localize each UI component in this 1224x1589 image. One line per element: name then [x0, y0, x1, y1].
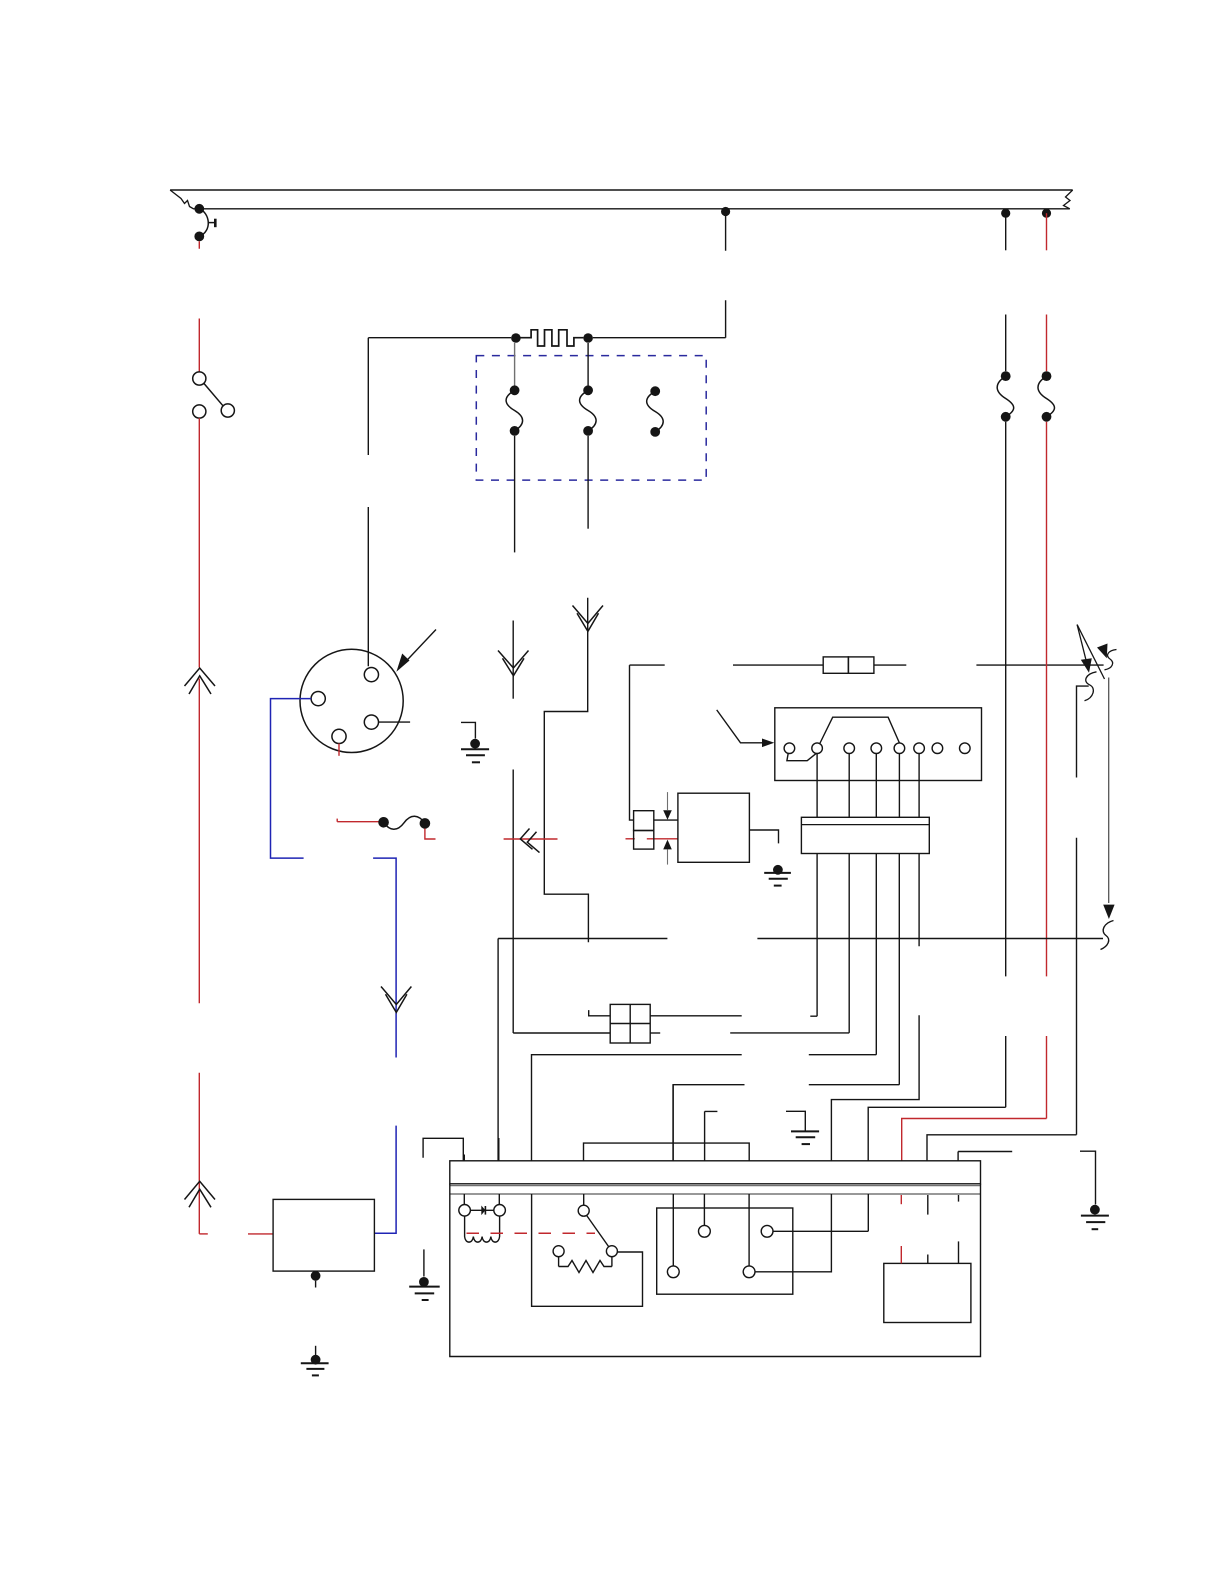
wire BR to accessory vertical — [755, 1194, 831, 1272]
node dot resistor left — [511, 333, 521, 343]
wire red feed continues down — [1046, 422, 1048, 1119]
ground G4 solenoid — [409, 1277, 440, 1300]
wire dash black into module A — [928, 1195, 959, 1263]
distributor pin left — [311, 692, 325, 706]
distributor pin right — [364, 715, 378, 729]
arrowhead 2 — [1097, 644, 1108, 659]
wire relay right top — [650, 1015, 742, 1017]
bus left corner down to engine harness — [497, 939, 499, 1161]
diode terminal circles — [459, 1205, 471, 1217]
wire harness bottom line — [199, 208, 1070, 210]
terminal circle BL — [667, 1266, 679, 1278]
diode symbol — [481, 1206, 485, 1216]
wire fuse1 branch resume with chevrons to horn relay — [513, 621, 610, 1034]
node dot resistor right — [583, 333, 593, 343]
arrowhead off-page down — [1103, 905, 1114, 919]
ballast resistor square wave — [521, 330, 584, 346]
wire: resistor block to flasher — [654, 819, 678, 821]
wire J5 — [831, 854, 919, 1161]
wire TR to starter vertical — [773, 1230, 868, 1232]
leader line 1 — [1077, 625, 1086, 660]
flasher box — [678, 793, 750, 862]
wire: flasher to ground — [749, 830, 778, 843]
points sub-box outline — [532, 1194, 643, 1306]
points pivot circle — [578, 1205, 589, 1216]
distributor pin top — [364, 668, 378, 682]
wire J2 — [730, 854, 849, 1033]
points resistor zigzag — [559, 1261, 612, 1273]
wire: harness down to solenoid from horn button — [423, 1138, 463, 1161]
switch blade — [204, 384, 223, 406]
break squiggle bottom — [1101, 921, 1114, 950]
wire black accessory feed — [1005, 213, 1007, 371]
points arm — [587, 1215, 609, 1247]
resistor block two cells — [634, 811, 654, 849]
wire long off-page vertical — [1108, 678, 1110, 904]
wire red dashes into module — [900, 1195, 902, 1263]
bracket above bar — [584, 1143, 750, 1161]
circuit breaker arc — [199, 209, 215, 237]
connector bridge jumper top — [820, 717, 900, 743]
inline fuse holder boxes on bus — [823, 657, 874, 673]
points pivot feed — [583, 1194, 585, 1205]
wire: band to ballast resistor — [725, 212, 727, 338]
contact lead — [611, 1257, 613, 1267]
break squiggle middle — [1085, 672, 1097, 701]
condenser circle — [553, 1246, 564, 1257]
wire red to inline fuse — [337, 821, 379, 823]
coil humps — [465, 1237, 500, 1243]
wire ground spur — [958, 1152, 1012, 1161]
chevrons on red flasher feed (pointing left) — [520, 829, 539, 853]
fuse block dashed outline — [476, 356, 706, 481]
wire BR feed from bracket leg — [748, 1194, 750, 1266]
wire red accessory feed — [1046, 213, 1048, 371]
distributor leader arrow — [396, 630, 436, 672]
torn edge right — [1064, 190, 1073, 209]
connector pins — [784, 743, 970, 754]
wire red: distributor bottom pin stub — [338, 744, 340, 756]
wire J4 — [673, 854, 899, 1161]
ground G3 right — [1081, 1205, 1109, 1229]
wire harness top line — [170, 189, 1073, 191]
wire horn relay bottom-left circle feed — [672, 1085, 674, 1266]
wire black feed corner to starter wire — [868, 1107, 1006, 1161]
wire red from inline fuse — [425, 829, 436, 840]
junction block — [801, 817, 929, 853]
chevrons on blue wire — [381, 987, 411, 1013]
fuse F5 on red feed — [1042, 371, 1052, 381]
battery negative post dot — [311, 1271, 321, 1281]
diode link line — [470, 1209, 494, 1211]
distributor body circle — [300, 649, 403, 752]
node dot resistor feed — [721, 207, 730, 216]
wire bus far right segment — [976, 664, 1103, 666]
wire bus corner down to flasher — [630, 665, 634, 820]
condenser lead — [558, 1257, 560, 1267]
wire fuse2 branch with chevrons and jogs — [544, 598, 588, 943]
node dot accessory red — [1042, 209, 1051, 218]
arrowhead 1 — [1081, 658, 1092, 672]
wire red: key switch down left rail — [199, 418, 272, 1234]
torn edge left — [170, 190, 199, 209]
junction block inner line — [801, 824, 929, 826]
ground G1 near distributor — [461, 722, 489, 762]
ground G5 battery — [301, 1346, 329, 1376]
fuse F4 on black feed — [1001, 371, 1011, 381]
callout arrow down — [663, 792, 672, 820]
distributor pin bottom — [332, 729, 346, 743]
wire stub into relay left top — [589, 1010, 611, 1016]
wire horn circle feed with stub — [704, 1111, 717, 1225]
wire blue: distributor left pin loop — [271, 699, 397, 1234]
break squiggle top — [1105, 650, 1117, 670]
wire: distributor right pin stub — [379, 721, 411, 723]
wire black feed continues to lower corner — [1005, 422, 1007, 1108]
connector leader arrow — [717, 710, 775, 747]
wire: engine harness corners right side — [868, 1107, 1095, 1204]
wire relay right bottom — [650, 1032, 660, 1034]
wire bus left segment — [630, 664, 665, 666]
wire red: breaker to key switch — [198, 241, 200, 372]
wire bus mid segment — [733, 664, 823, 666]
inline fuse element — [378, 817, 389, 828]
wire into diode terminal 2 — [498, 1138, 500, 1161]
ground G2 flasher — [764, 865, 791, 886]
assembly thin rail line — [450, 1185, 981, 1187]
coil legs — [464, 1216, 466, 1236]
terminal circle TM — [699, 1225, 711, 1237]
assembly body outline — [450, 1184, 981, 1357]
terminal circle BR — [743, 1266, 755, 1278]
wire into diode terminal 1 — [463, 1155, 465, 1161]
node dot accessory black — [1001, 209, 1010, 218]
fuse F2 — [580, 343, 597, 529]
key switch — [193, 372, 235, 418]
wire red to flasher with chevron — [504, 838, 678, 840]
wire red feed corner — [902, 1119, 1047, 1161]
wires connector to junction block — [817, 754, 919, 818]
wire bus segment to right — [874, 664, 906, 666]
wire J3 — [532, 854, 877, 1161]
ground G6 horn (no dot) — [786, 1111, 819, 1144]
connector jumper bottom — [787, 753, 816, 760]
chevrons on fuse1 branch — [498, 651, 529, 676]
fuse F3 spare — [647, 386, 664, 436]
connector chevrons on red rail lower — [185, 1181, 216, 1207]
wire: relay bottom left corner into bracket zone — [673, 1085, 717, 1266]
leader line 2 — [1077, 625, 1104, 679]
node dot battery feed left — [194, 204, 204, 214]
red dashed control wire inside assembly — [467, 1232, 596, 1234]
callout arrow up — [663, 840, 672, 865]
connector chevrons on red rail upper — [185, 668, 216, 694]
wire J1 — [810, 854, 817, 1017]
wire off-page L to lighting — [1077, 686, 1089, 777]
wire: resistor rail down to distributor — [367, 338, 369, 667]
fuse F1 — [506, 343, 523, 552]
assembly top bar — [450, 1161, 981, 1184]
wire: resistor to coil rail — [368, 337, 725, 339]
wire to ground below — [423, 1249, 425, 1276]
node dot breaker bottom — [194, 232, 204, 242]
terminal circle TR — [761, 1225, 773, 1237]
assembly band bottom line — [450, 1193, 981, 1195]
points contact circle — [606, 1246, 617, 1257]
inline fuse red lead tick — [336, 819, 338, 822]
wires junction block down with jogs — [532, 854, 920, 1161]
wire off-page L corner — [927, 1135, 1077, 1161]
chevrons on fuse2 branch — [573, 606, 604, 632]
